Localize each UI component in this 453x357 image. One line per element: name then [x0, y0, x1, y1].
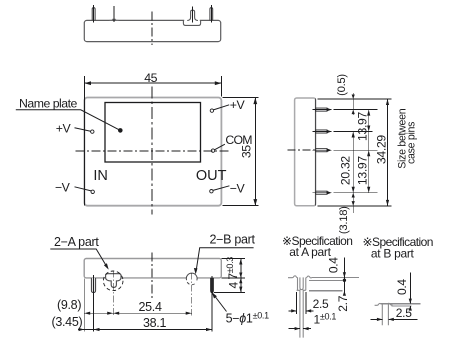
- dim 45 line: [84, 82, 221, 84]
- top view case outline: [84, 20, 220, 41]
- A spec dim 1 line: [289, 328, 301, 330]
- B spec surface line: [392, 305, 412, 307]
- ext case top: [318, 98, 392, 100]
- A spec part outline: [288, 276, 312, 290]
- svg-text:13.97: 13.97: [356, 111, 370, 141]
- pin circle -V right: [210, 190, 213, 193]
- svg-text:5−ϕ1±0.1: 5−ϕ1±0.1: [226, 311, 270, 326]
- leader +V left: [75, 128, 91, 131]
- A spec dim 2.5 line: [289, 310, 297, 312]
- left phi1 pin (bottom view): [91, 278, 95, 293]
- side case outline: [295, 98, 316, 206]
- A spec surface lower line: [309, 279, 343, 281]
- ext bar bottom right: [222, 277, 245, 279]
- dim 35 extension top: [223, 97, 259, 99]
- svg-text:0.4: 0.4: [395, 279, 409, 295]
- top view vertical centerline: [151, 12, 153, 46]
- side case right edge (dark): [314, 99, 316, 206]
- svg-text:38.1: 38.1: [143, 316, 166, 330]
- gap in case edge at tab: [184, 19, 200, 21]
- name plate leader shelf: [16, 110, 121, 131]
- svg-text:0.4: 0.4: [327, 257, 341, 273]
- dim 45 extension left / case left edge: [83, 76, 85, 206]
- svg-text:7±0.3: 7±0.3: [225, 257, 240, 280]
- svg-text:(3.18): (3.18): [338, 206, 350, 234]
- tab pin base (top view): [183, 21, 200, 26]
- pin P2 bump on case edge: [110, 19, 119, 20]
- leader -V right: [213, 186, 229, 191]
- svg-text:13.97: 13.97: [356, 156, 370, 186]
- A spec texts: [282, 234, 352, 327]
- leader +V right: [213, 105, 229, 110]
- dim line 3.45 / 38.1: [78, 329, 212, 331]
- pin P4 body (top view): [210, 8, 213, 21]
- pin circle +V right: [210, 109, 213, 112]
- leader 5-phi1: [213, 294, 227, 312]
- A spec boss tip ext line: [309, 290, 343, 292]
- ext pin4: [334, 192, 378, 194]
- ext pin2: [334, 131, 373, 133]
- ext pin3: [334, 149, 378, 151]
- svg-text:at B part: at B part: [371, 247, 415, 261]
- A spec ext walls for 2.5: [296, 292, 298, 314]
- svg-text:4: 4: [227, 281, 241, 288]
- B spec dim 2.5 line: [370, 318, 382, 320]
- svg-text:35: 35: [240, 145, 254, 158]
- svg-text:IN: IN: [93, 168, 108, 184]
- B centerline: [191, 273, 193, 316]
- side view pins: [313, 108, 332, 195]
- front vertical centerline: [151, 86, 153, 214]
- ext bar top right: [222, 258, 245, 260]
- dim 35 extension bottom: [223, 205, 259, 207]
- leader 2-A part: [50, 249, 107, 268]
- side pin 2: [313, 130, 332, 134]
- bottom bar outline: [84, 259, 221, 278]
- svg-text:(9.8): (9.8): [57, 298, 81, 312]
- name plate rectangle: [105, 103, 201, 163]
- svg-text:2.5: 2.5: [313, 297, 329, 311]
- bottom view texts: [52, 233, 270, 331]
- bottom centerline: [151, 253, 153, 300]
- front horizontal centerline: [76, 150, 231, 152]
- svg-text:+V: +V: [230, 98, 246, 112]
- pin circle -V left: [91, 190, 94, 193]
- svg-text:(3.45): (3.45): [52, 315, 83, 329]
- bottom view dim arrows: [79, 259, 243, 332]
- leader -V left: [75, 187, 92, 191]
- svg-text:Name plate: Name plate: [19, 97, 78, 111]
- B boss circle: [187, 274, 197, 284]
- B spec texts: [363, 235, 433, 320]
- side pin 3: [313, 148, 332, 152]
- dim line 9.8 / 25.4: [84, 312, 192, 314]
- svg-text:case pins: case pins: [406, 122, 418, 164]
- pin P1 centerline: [93, 5, 95, 22]
- svg-text:45: 45: [144, 71, 157, 85]
- A centerline: [112, 270, 114, 315]
- left pin centerline + ext: [93, 275, 95, 332]
- pin circle +V left: [91, 130, 94, 133]
- svg-text:COM: COM: [225, 133, 252, 147]
- ext case bottom: [318, 205, 392, 207]
- pin P2 centerline: [113, 6, 115, 22]
- dim 35 line: [254, 98, 256, 206]
- svg-text:OUT: OUT: [196, 168, 227, 184]
- side view dimension extension lines: [318, 93, 392, 213]
- B spec arrows: [409, 299, 412, 304]
- side view dimension arrows: [352, 95, 390, 206]
- A spec surface top line: [312, 277, 359, 279]
- svg-text:(0.5): (0.5): [336, 74, 348, 96]
- side centerline through COM pin: [288, 149, 317, 151]
- svg-text:−V: −V: [55, 180, 71, 194]
- B spec dim 0.4 vertical: [409, 273, 411, 304]
- dim line 7 and 4: [240, 259, 242, 293]
- front view texts: [19, 71, 254, 195]
- A spec pin walls going down: [300, 290, 303, 338]
- ext pin tip right: [214, 292, 245, 294]
- dim 34.29 line: [387, 99, 389, 206]
- ext pin1: [334, 109, 378, 111]
- pin circle COM: [211, 149, 214, 152]
- dim 13.97 line: [368, 110, 370, 193]
- svg-text:+V: +V: [56, 122, 72, 136]
- side pin 4: [313, 191, 332, 195]
- A boss hat: [106, 274, 121, 278]
- leader COM: [215, 144, 225, 150]
- svg-text:25.4: 25.4: [139, 300, 162, 314]
- side pin 1: [313, 108, 332, 112]
- svg-text:at A part: at A part: [289, 245, 331, 259]
- pin P4 centerline: [210, 5, 212, 22]
- dim (0.5) line: [352, 93, 354, 115]
- right pin ext line: [211, 276, 213, 332]
- A spec dim 0.4/2.7 vertical: [343, 258, 345, 291]
- svg-text:34.29: 34.29: [374, 135, 388, 165]
- svg-text:2.5: 2.5: [396, 306, 412, 320]
- tab pin stem (top view): [187, 10, 198, 20]
- dim 45 extension right: [220, 76, 222, 97]
- bar left edge ext: [83, 279, 85, 332]
- leader 2-B part: [196, 248, 254, 273]
- dim (3.18) line: [352, 193, 354, 213]
- svg-text:2−A part: 2−A part: [54, 235, 99, 249]
- A spec arrows: [343, 272, 346, 277]
- A boss stem: [106, 278, 121, 288]
- A dashed circle: [103, 271, 123, 291]
- pin P1 body (top view): [92, 8, 95, 21]
- gap in bar edge at A boss: [106, 277, 120, 279]
- dim 20.32 line: [352, 132, 354, 193]
- name plate leader dot: [118, 128, 123, 133]
- svg-text:2.7: 2.7: [336, 295, 350, 311]
- side view dim texts (rotated): [336, 74, 418, 234]
- tab centerline: [192, 7, 194, 23]
- B spec top line: [381, 303, 421, 305]
- right phi1 pin (bottom view): [211, 278, 214, 293]
- svg-text:1±0.1: 1±0.1: [314, 312, 337, 327]
- svg-text:−V: −V: [230, 181, 246, 195]
- B spec part outline: [375, 303, 393, 325]
- front case outline: [84, 98, 221, 206]
- svg-text:2−B part: 2−B part: [210, 233, 256, 247]
- svg-text:20.32: 20.32: [338, 156, 352, 186]
